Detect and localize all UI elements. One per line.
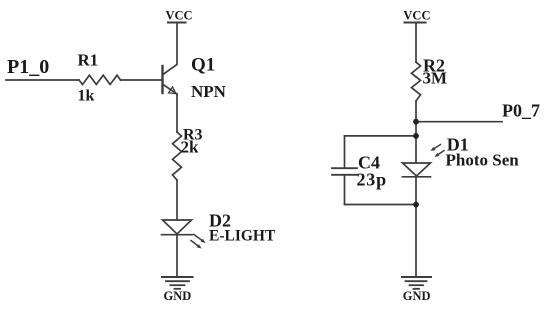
svg-text:GND: GND — [164, 289, 192, 303]
svg-text:GND: GND — [403, 289, 431, 303]
svg-text:VCC: VCC — [403, 8, 430, 22]
svg-text:P0_7: P0_7 — [502, 101, 540, 121]
svg-text:E-LIGHT: E-LIGHT — [209, 228, 276, 245]
svg-text:2k: 2k — [181, 138, 200, 157]
svg-text:P1_0: P1_0 — [7, 56, 49, 78]
svg-text:23p: 23p — [357, 170, 387, 190]
svg-text:3M: 3M — [423, 69, 448, 88]
svg-text:NPN: NPN — [191, 82, 227, 101]
svg-text:Photo Sen: Photo Sen — [446, 151, 520, 170]
svg-text:Q1: Q1 — [191, 55, 215, 76]
svg-text:R1: R1 — [78, 51, 99, 70]
svg-text:1k: 1k — [78, 88, 95, 105]
svg-text:VCC: VCC — [166, 8, 193, 22]
